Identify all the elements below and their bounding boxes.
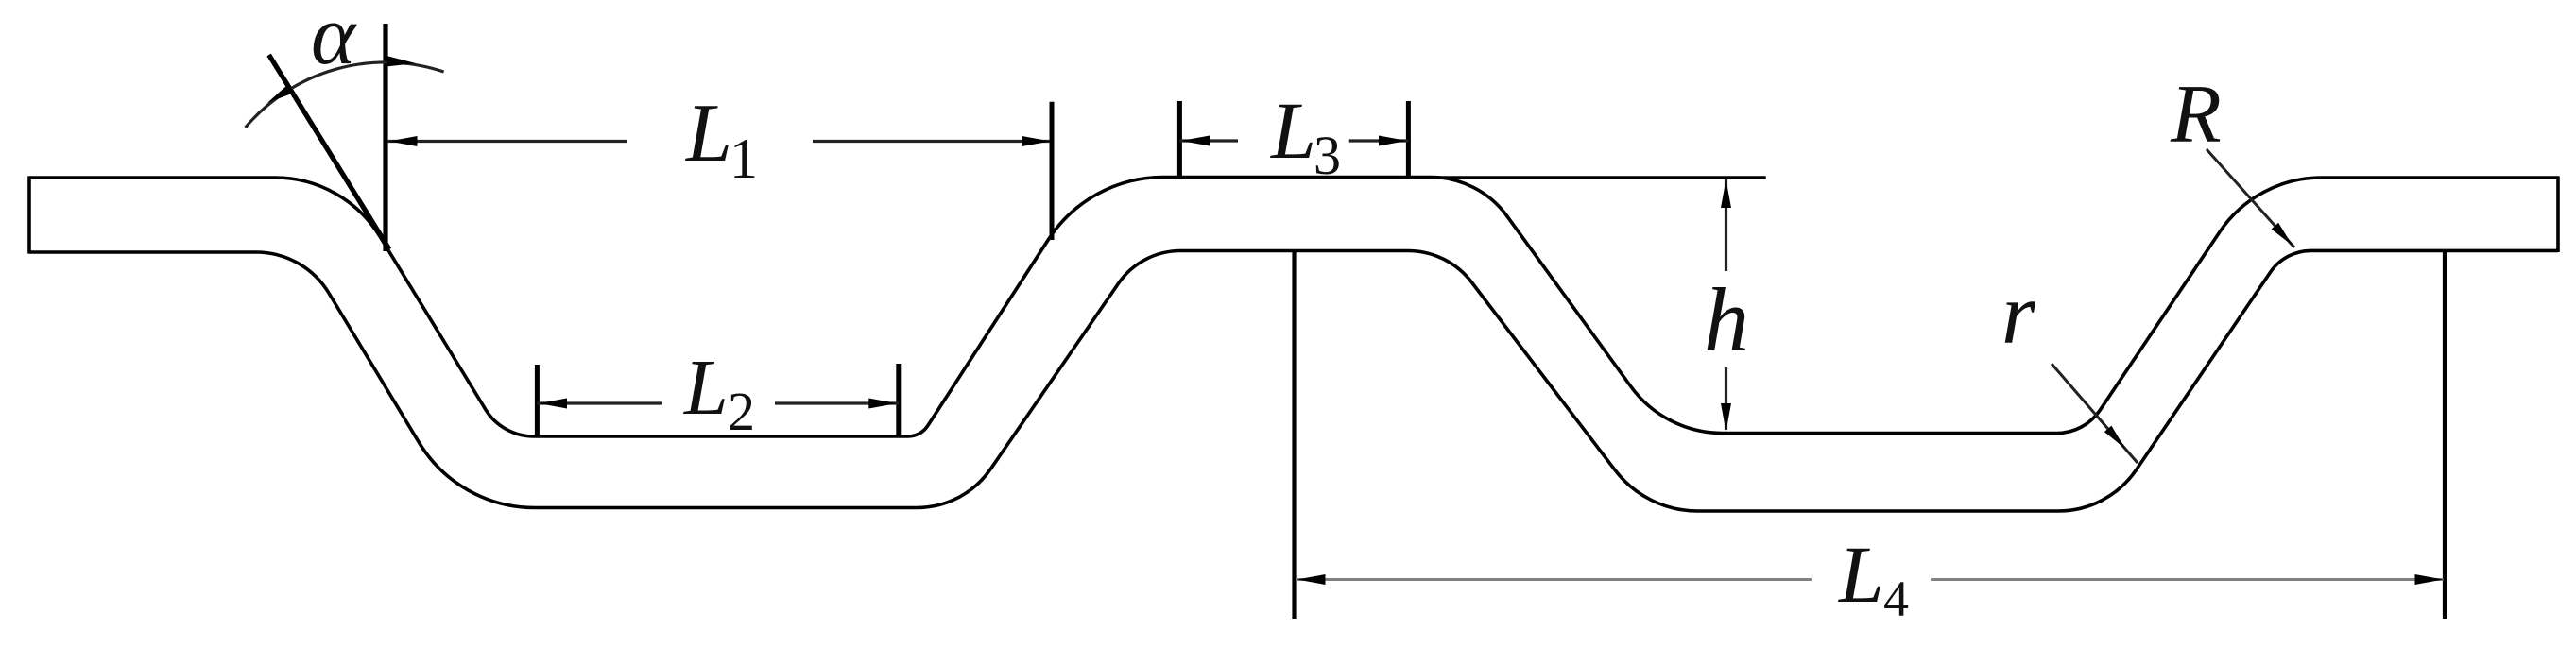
angle alpha vertical reference line <box>383 24 387 251</box>
profile left end cap <box>27 176 31 253</box>
label R leader <box>2207 149 2294 247</box>
dimension L1 line <box>387 136 1052 146</box>
h top extension line <box>1436 176 1766 179</box>
svg-text:3: 3 <box>1314 125 1341 186</box>
svg-text:4: 4 <box>1883 571 1909 627</box>
svg-text:L: L <box>683 344 729 432</box>
angle alpha dimension arc <box>246 56 444 128</box>
svg-text:L: L <box>1269 85 1316 176</box>
dimension h line <box>1721 179 1731 432</box>
angle alpha tangent line <box>269 55 389 249</box>
svg-text:L: L <box>684 88 732 179</box>
svg-text:1: 1 <box>730 128 758 190</box>
dimension L4 line <box>1296 574 2444 585</box>
dimension L3 line <box>1179 136 1408 146</box>
dimension L2 ticks <box>537 364 898 436</box>
dimension L1 right extension tick <box>1050 102 1055 240</box>
label r leader <box>2052 364 2138 463</box>
svg-text:r: r <box>2001 265 2036 362</box>
svg-text:L: L <box>1837 529 1884 620</box>
profile sheet top surface <box>29 177 2558 436</box>
dimension L3 ticks <box>1179 101 1408 178</box>
dimension L2 line <box>537 399 898 409</box>
svg-text:R: R <box>2170 69 2222 161</box>
profile sheet bottom surface <box>29 250 2558 511</box>
profile right end cap <box>2556 176 2560 252</box>
svg-text:2: 2 <box>728 381 755 442</box>
svg-text:h: h <box>1704 269 1749 370</box>
dimension L4 extension lines <box>1295 250 2446 619</box>
svg-text:α: α <box>311 0 357 82</box>
